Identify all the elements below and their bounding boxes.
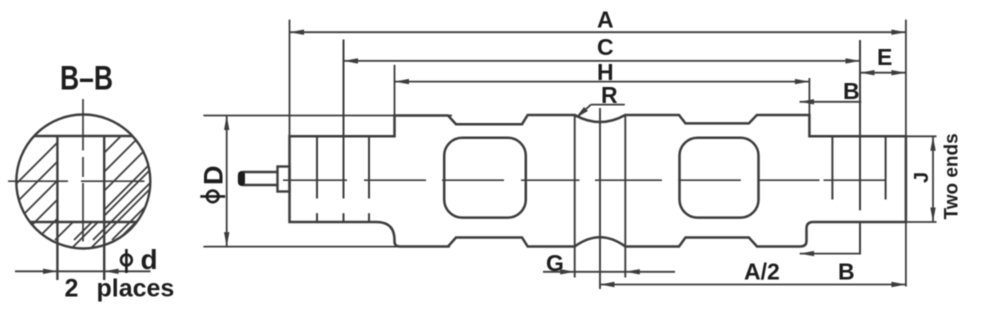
svg-text:R: R <box>601 82 618 108</box>
svg-text:A/2: A/2 <box>744 259 780 285</box>
svg-text:places: places <box>97 275 175 303</box>
svg-text:C: C <box>597 34 614 60</box>
svg-text:D: D <box>199 166 229 186</box>
svg-text:Two ends: Two ends <box>942 133 963 219</box>
svg-text:d: d <box>141 244 158 275</box>
svg-text:A: A <box>597 7 614 33</box>
svg-text:B–B: B–B <box>60 59 113 97</box>
svg-text:2: 2 <box>65 275 79 303</box>
svg-text:E: E <box>877 44 892 70</box>
svg-text:B: B <box>838 259 855 285</box>
svg-text:G: G <box>546 250 564 276</box>
svg-text:J: J <box>911 172 933 183</box>
svg-text:B: B <box>843 78 860 104</box>
svg-text:H: H <box>597 59 614 85</box>
